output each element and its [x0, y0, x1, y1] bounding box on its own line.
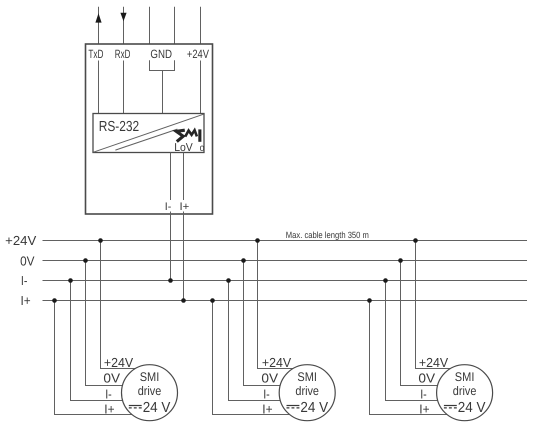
- svg-text:SMI: SMI: [455, 370, 475, 384]
- svg-text:I-: I-: [420, 386, 427, 401]
- svg-text:I-: I-: [165, 201, 172, 213]
- svg-text:I-: I-: [21, 273, 28, 288]
- svg-text:SMI: SMI: [140, 370, 160, 384]
- svg-text:I+: I+: [262, 402, 272, 417]
- svg-text:0V: 0V: [418, 371, 435, 386]
- svg-text:I+: I+: [104, 402, 114, 417]
- svg-text:+24V: +24V: [5, 233, 36, 248]
- svg-text:I-: I-: [105, 386, 112, 401]
- svg-text:+24V: +24V: [419, 355, 449, 370]
- svg-text:I+: I+: [419, 402, 429, 417]
- svg-text:LoV: LoV: [174, 142, 193, 154]
- svg-text:RS-232: RS-232: [99, 119, 140, 135]
- svg-text:24 V: 24 V: [458, 400, 486, 416]
- svg-text:drive: drive: [295, 384, 319, 398]
- svg-text:I+: I+: [180, 201, 190, 213]
- svg-text:0V: 0V: [20, 253, 35, 268]
- svg-text:SMI: SMI: [297, 370, 317, 384]
- svg-text:I+: I+: [21, 293, 31, 308]
- svg-text:+24V: +24V: [187, 47, 209, 61]
- svg-text:0V: 0V: [103, 371, 120, 386]
- svg-text:0V: 0V: [261, 371, 278, 386]
- svg-text:drive: drive: [138, 384, 162, 398]
- svg-text:+24V: +24V: [104, 355, 134, 370]
- svg-text:TxD: TxD: [88, 47, 103, 61]
- svg-text:Max. cable length 350 m: Max. cable length 350 m: [286, 230, 369, 240]
- svg-text:24 V: 24 V: [300, 400, 328, 416]
- svg-text:RxD: RxD: [115, 47, 131, 61]
- svg-text:24 V: 24 V: [143, 400, 171, 416]
- svg-text:o: o: [200, 143, 205, 154]
- svg-text:+24V: +24V: [262, 355, 292, 370]
- svg-text:GND: GND: [150, 47, 172, 61]
- svg-text:I-: I-: [263, 386, 270, 401]
- svg-text:drive: drive: [453, 384, 477, 398]
